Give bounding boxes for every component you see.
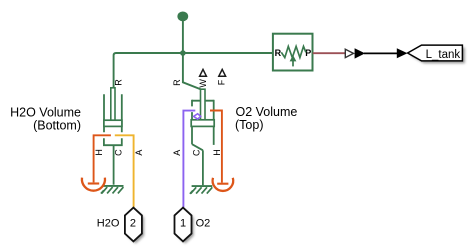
junction dot (180, 50, 186, 56)
goto tag L_tank shadow (410, 48, 465, 64)
port W triangle (unconnected) (200, 69, 207, 76)
svg-text:P: P (305, 48, 311, 58)
svg-text:H2O: H2O (97, 218, 120, 230)
svg-text:A: A (172, 150, 182, 156)
svg-text:(Top): (Top) (235, 118, 263, 132)
thermal reference (middle): T-bar (217, 183, 228, 185)
open arrow (PS output marker) (345, 49, 353, 57)
thermal reference (left): arc (82, 178, 105, 191)
converter piston H2O (left): rod (111, 88, 115, 121)
wire: main horizontal bus (114, 53, 273, 88)
port 2 hexagon shadow (127, 210, 144, 244)
converter piston O2: left wall with gap (192, 100, 203, 151)
goto tag L_tank (408, 45, 463, 61)
block: local restriction (valve) border (273, 34, 313, 71)
svg-text:C: C (192, 149, 202, 156)
svg-text:L_tank: L_tank (426, 49, 461, 61)
wire A (left, yellow) to port 2 (115, 135, 134, 207)
wire: C stub to ground (left) (113, 145, 115, 185)
wire: node to main bus (182, 19, 184, 53)
wire: two-phase fluid (dark red) (313, 52, 345, 54)
converter piston O2: piston head (191, 120, 214, 127)
port 1 hexagon shadow (177, 210, 194, 244)
svg-text:(Bottom): (Bottom) (33, 118, 81, 132)
mechanical reference (middle): hatches (190, 187, 212, 194)
mechanical reference (left): hatches (101, 187, 124, 194)
wire: signal line (364, 52, 398, 54)
port F triangle (unconnected) (219, 69, 226, 76)
converter piston O2: top cap (192, 100, 214, 102)
thermal reference (left): T-bar (88, 182, 99, 184)
svg-text:O2 Volume: O2 Volume (236, 105, 298, 119)
svg-text:R: R (114, 79, 124, 86)
mechanical reference (middle): bar (192, 185, 213, 187)
svg-text:H: H (212, 149, 222, 156)
svg-text:A: A (134, 150, 144, 156)
wire R (middle converter) (183, 53, 201, 89)
svg-text:O2: O2 (196, 218, 211, 230)
filled arrow (signal start) (355, 48, 366, 58)
converter piston O2: right wall (213, 100, 215, 145)
wire: C stub to ground (middle) (202, 150, 204, 185)
svg-text:C: C (113, 149, 123, 156)
converter piston H2O: cylinder cap cup (104, 138, 122, 145)
svg-text:H2O Volume: H2O Volume (10, 105, 81, 119)
port 1 hexagon (175, 208, 192, 242)
node: top supply node dot (177, 12, 188, 22)
thermal reference (middle): arc (213, 178, 234, 191)
converter piston O2 (middle): rod (201, 89, 206, 120)
converter piston H2O: cylinder walls (104, 94, 122, 132)
wire A (purple) from port 1 (183, 111, 195, 208)
resistor zigzag (281, 46, 306, 57)
svg-text:H: H (94, 149, 104, 156)
variable arrow stem (292, 61, 294, 67)
mechanical reference (left): bar (103, 185, 123, 187)
svg-text:2: 2 (130, 218, 136, 230)
svg-text:W: W (198, 79, 208, 88)
arrowhead at goto tag (397, 48, 408, 58)
svg-text:F: F (217, 79, 227, 85)
port 2 hexagon (125, 208, 142, 242)
wire H thermal (left, orange) (94, 135, 111, 182)
port A diamond (unconnected, purple) (194, 114, 201, 119)
svg-text:1: 1 (180, 218, 186, 230)
variable arrow head (290, 55, 297, 61)
wire H thermal (middle, orange) (210, 111, 222, 183)
svg-text:R: R (275, 48, 282, 58)
svg-text:R: R (172, 79, 182, 86)
converter piston H2O: piston head (104, 120, 122, 126)
